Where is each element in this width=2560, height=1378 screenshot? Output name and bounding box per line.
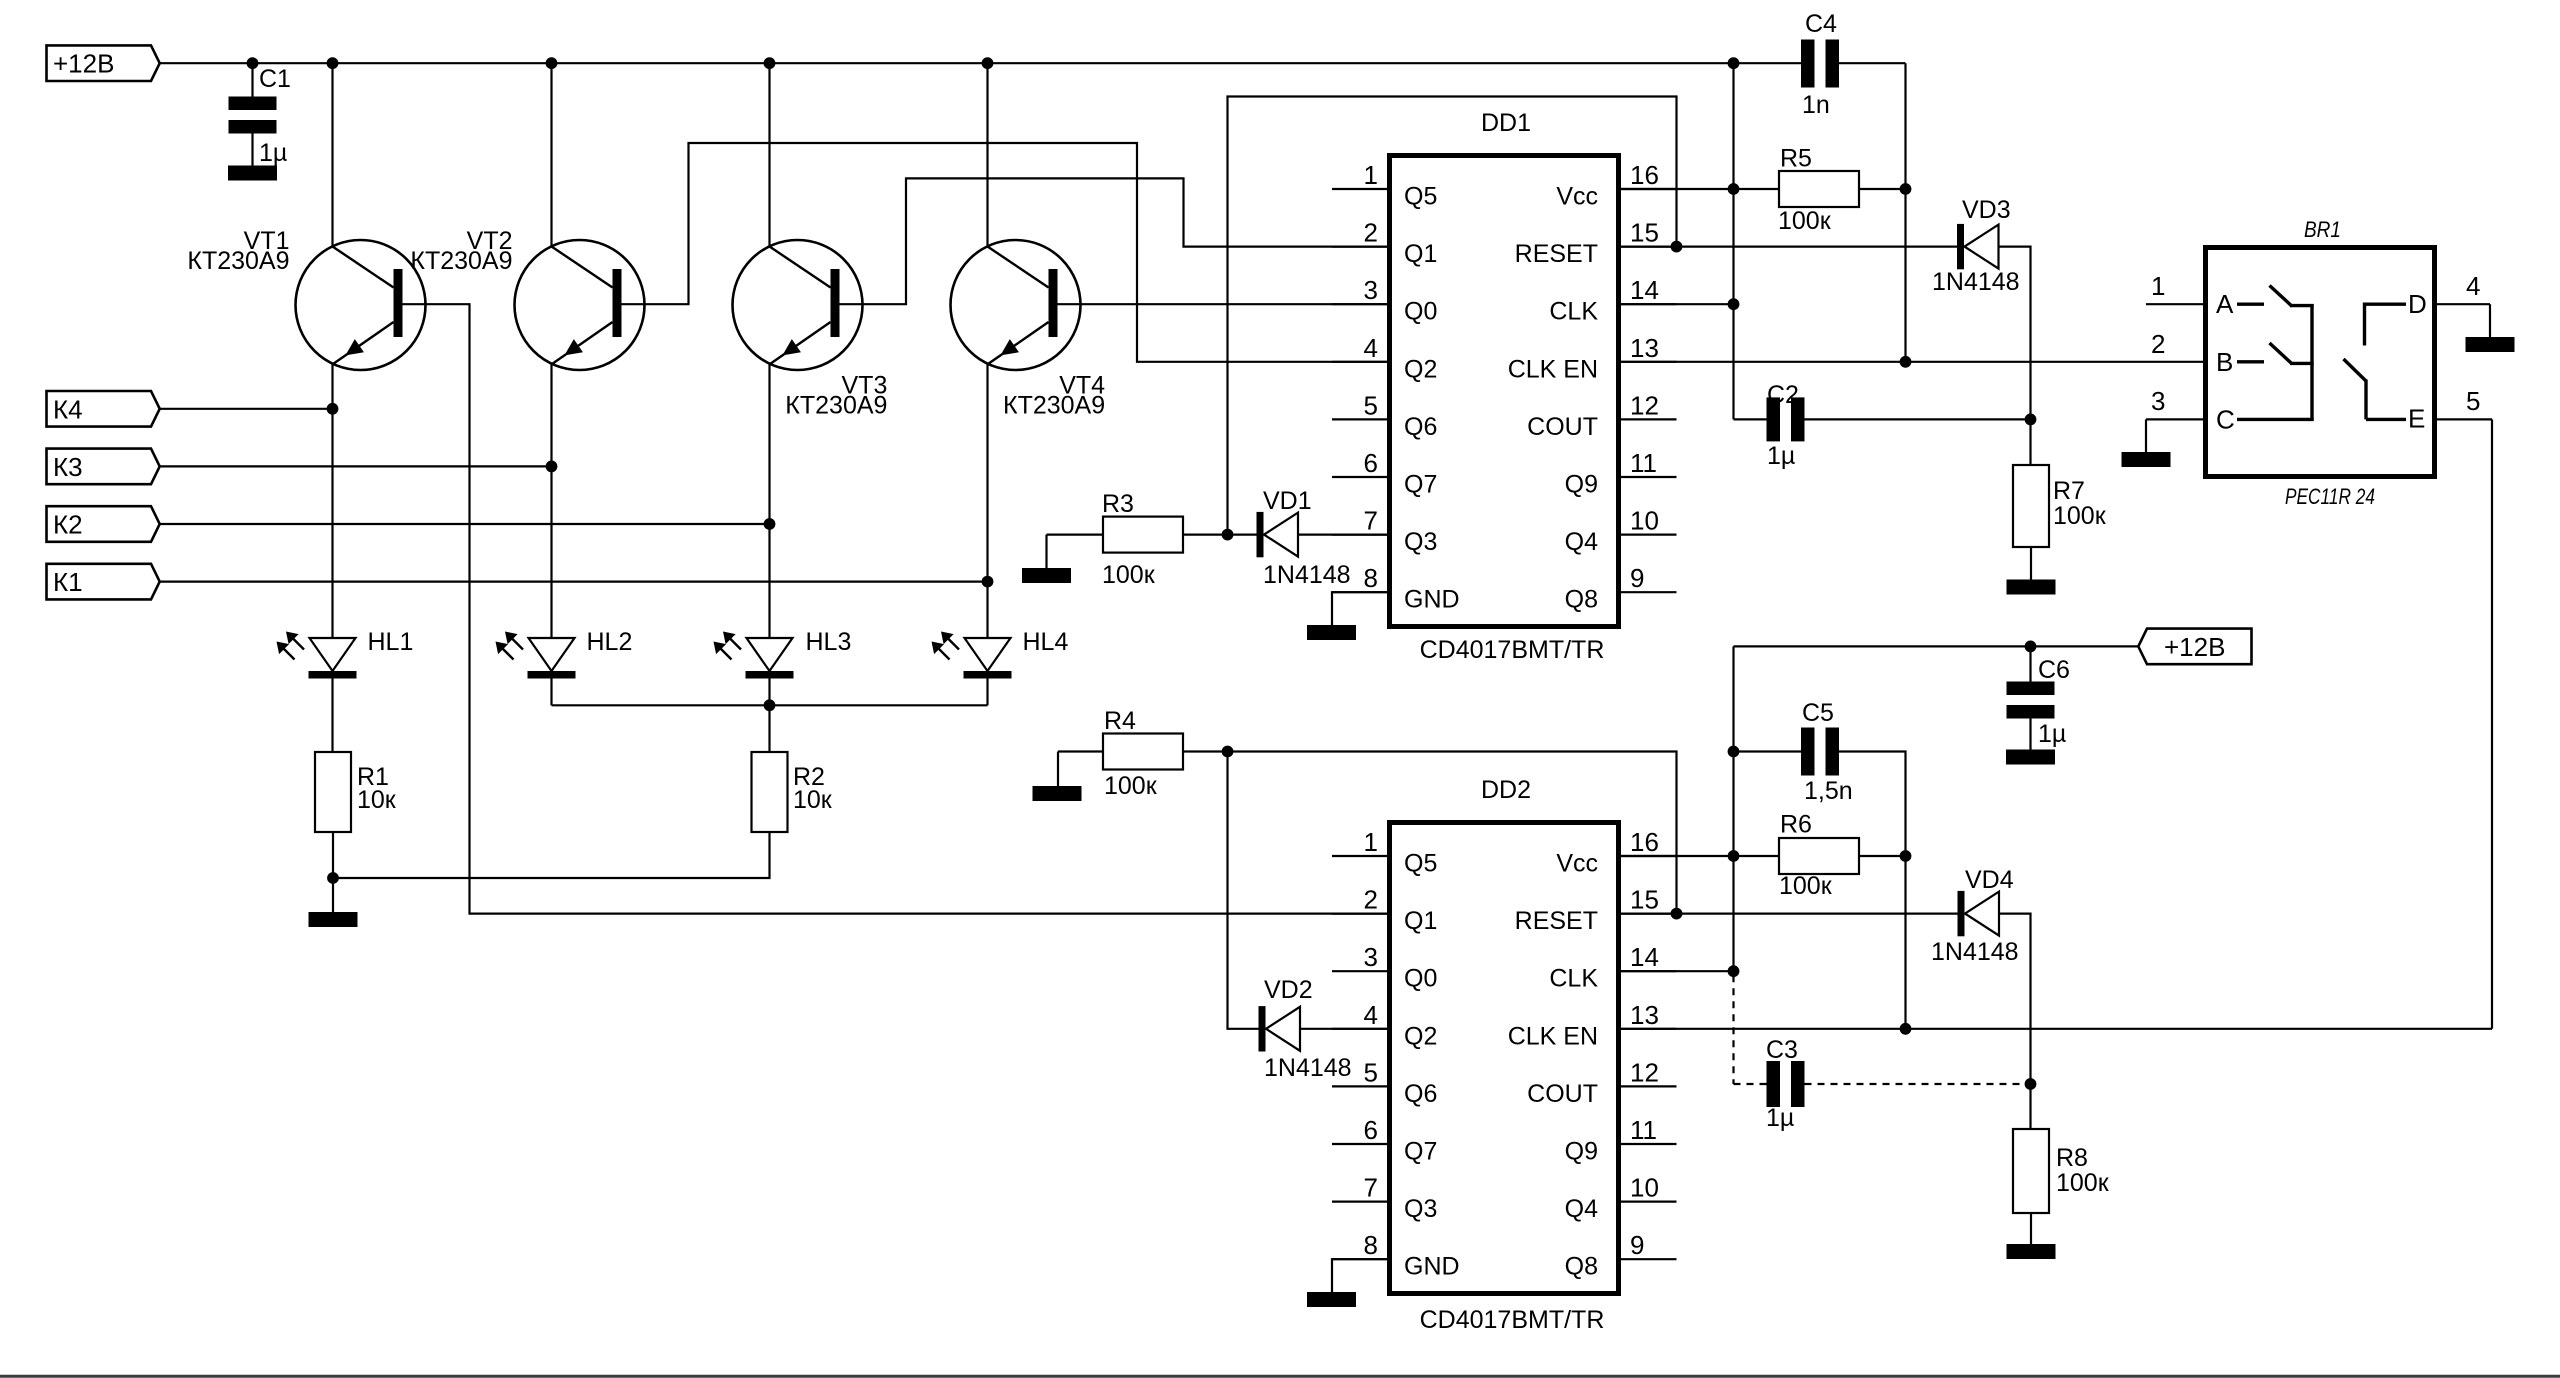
svg-text:Q9: Q9 xyxy=(1565,1138,1598,1166)
svg-text:8: 8 xyxy=(1364,1230,1378,1260)
svg-text:BR1: BR1 xyxy=(2304,217,2341,242)
svg-text:C6: C6 xyxy=(2038,656,2070,684)
svg-text:RESET: RESET xyxy=(1515,907,1598,935)
svg-text:Q6: Q6 xyxy=(1404,413,1437,441)
svg-text:Q8: Q8 xyxy=(1565,1253,1598,1281)
svg-text:HL1: HL1 xyxy=(368,628,414,656)
svg-text:1µ: 1µ xyxy=(1766,1104,1794,1132)
svg-text:14: 14 xyxy=(1630,275,1659,305)
svg-text:Q0: Q0 xyxy=(1404,298,1437,326)
svg-text:Q3: Q3 xyxy=(1404,1195,1437,1223)
svg-text:C2: C2 xyxy=(1767,381,1799,409)
svg-text:5: 5 xyxy=(1364,390,1378,420)
svg-text:RESET: RESET xyxy=(1515,240,1598,268)
svg-text:1,5n: 1,5n xyxy=(1804,777,1853,805)
svg-text:HL2: HL2 xyxy=(587,628,633,656)
svg-text:6: 6 xyxy=(1364,448,1378,478)
svg-text:15: 15 xyxy=(1630,885,1659,915)
svg-text:Q6: Q6 xyxy=(1404,1080,1437,1108)
svg-text:Q1: Q1 xyxy=(1404,240,1437,268)
svg-text:Q2: Q2 xyxy=(1404,1022,1437,1050)
svg-text:Q9: Q9 xyxy=(1565,471,1598,499)
svg-text:5: 5 xyxy=(1364,1057,1378,1087)
svg-text:Q1: Q1 xyxy=(1404,907,1437,935)
svg-text:VD4: VD4 xyxy=(1965,866,2014,894)
svg-text:CLK: CLK xyxy=(1549,965,1598,993)
svg-text:DD1: DD1 xyxy=(1481,109,1531,137)
svg-text:Q2: Q2 xyxy=(1404,355,1437,383)
svg-text:16: 16 xyxy=(1630,827,1659,857)
svg-text:13: 13 xyxy=(1630,1000,1659,1030)
svg-text:Q7: Q7 xyxy=(1404,471,1437,499)
svg-text:Q5: Q5 xyxy=(1404,850,1437,878)
svg-text:1N4148: 1N4148 xyxy=(1264,1054,1352,1082)
svg-text:4: 4 xyxy=(2466,271,2480,301)
svg-text:COUT: COUT xyxy=(1527,413,1598,441)
svg-text:GND: GND xyxy=(1404,1253,1460,1281)
svg-text:+12В: +12В xyxy=(2164,632,2225,662)
svg-text:DD2: DD2 xyxy=(1481,776,1531,804)
svg-text:1µ: 1µ xyxy=(1767,442,1795,470)
svg-text:E: E xyxy=(2408,404,2425,434)
svg-text:7: 7 xyxy=(1364,1173,1378,1203)
svg-text:10к: 10к xyxy=(793,786,833,814)
svg-text:100к: 100к xyxy=(2053,502,2107,530)
svg-text:10к: 10к xyxy=(357,786,397,814)
svg-text:Q4: Q4 xyxy=(1565,1195,1598,1223)
svg-text:CD4017BMT/TR: CD4017BMT/TR xyxy=(1420,1306,1605,1334)
svg-text:15: 15 xyxy=(1630,218,1659,248)
svg-text:4: 4 xyxy=(1364,1000,1378,1030)
svg-text:1µ: 1µ xyxy=(259,139,287,167)
svg-text:100к: 100к xyxy=(1779,872,1833,900)
svg-text:Q7: Q7 xyxy=(1404,1138,1437,1166)
svg-text:Q3: Q3 xyxy=(1404,528,1437,556)
svg-text:9: 9 xyxy=(1630,1230,1644,1260)
svg-text:1N4148: 1N4148 xyxy=(1263,561,1351,589)
svg-text:11: 11 xyxy=(1630,1115,1657,1145)
svg-text:7: 7 xyxy=(1364,506,1378,536)
svg-text:10: 10 xyxy=(1630,1173,1659,1203)
svg-text:Q4: Q4 xyxy=(1565,528,1598,556)
svg-text:1: 1 xyxy=(2151,271,2165,301)
svg-text:R4: R4 xyxy=(1104,707,1136,735)
svg-text:1n: 1n xyxy=(1802,91,1830,119)
svg-text:C1: C1 xyxy=(259,65,291,93)
svg-text:VD1: VD1 xyxy=(1263,487,1312,515)
svg-text:КТ230А9: КТ230А9 xyxy=(1003,392,1105,420)
svg-text:КТ230А9: КТ230А9 xyxy=(785,392,887,420)
svg-text:8: 8 xyxy=(1364,563,1378,593)
svg-text:D: D xyxy=(2408,289,2427,319)
svg-text:A: A xyxy=(2216,289,2234,319)
svg-text:Q5: Q5 xyxy=(1404,183,1437,211)
svg-text:К1: К1 xyxy=(53,567,83,597)
svg-text:CLK EN: CLK EN xyxy=(1508,355,1598,383)
svg-text:CD4017BMT/TR: CD4017BMT/TR xyxy=(1420,636,1605,664)
svg-text:1: 1 xyxy=(1364,827,1378,857)
svg-text:16: 16 xyxy=(1630,160,1659,190)
svg-text:3: 3 xyxy=(2151,386,2165,416)
svg-text:Q0: Q0 xyxy=(1404,965,1437,993)
svg-text:1: 1 xyxy=(1364,160,1378,190)
svg-text:C3: C3 xyxy=(1766,1036,1798,1064)
svg-text:2: 2 xyxy=(2151,329,2165,359)
svg-text:C: C xyxy=(2216,405,2235,435)
svg-text:1µ: 1µ xyxy=(2038,720,2066,748)
svg-text:COUT: COUT xyxy=(1527,1080,1598,1108)
svg-text:2: 2 xyxy=(1364,885,1378,915)
svg-text:R7: R7 xyxy=(2053,477,2085,505)
svg-text:КТ230А9: КТ230А9 xyxy=(187,247,289,275)
svg-text:HL3: HL3 xyxy=(806,628,852,656)
svg-text:1N4148: 1N4148 xyxy=(1932,268,2020,296)
svg-text:14: 14 xyxy=(1630,942,1659,972)
svg-text:9: 9 xyxy=(1630,563,1644,593)
svg-text:Q8: Q8 xyxy=(1565,586,1598,614)
svg-text:+12В: +12В xyxy=(53,49,114,79)
svg-text:GND: GND xyxy=(1404,586,1460,614)
svg-text:1N4148: 1N4148 xyxy=(1931,938,2019,966)
svg-text:100к: 100к xyxy=(2056,1169,2110,1197)
svg-text:Vcc: Vcc xyxy=(1556,850,1598,878)
svg-text:К4: К4 xyxy=(53,394,83,424)
svg-text:100к: 100к xyxy=(1104,772,1158,800)
svg-text:3: 3 xyxy=(1364,942,1378,972)
svg-text:HL4: HL4 xyxy=(1023,628,1069,656)
svg-text:R5: R5 xyxy=(1780,145,1812,173)
svg-text:К3: К3 xyxy=(53,452,83,482)
svg-text:R6: R6 xyxy=(1780,811,1812,839)
svg-text:2: 2 xyxy=(1364,218,1378,248)
svg-text:11: 11 xyxy=(1630,448,1657,478)
svg-text:VD3: VD3 xyxy=(1962,196,2011,224)
svg-text:100к: 100к xyxy=(1778,207,1832,235)
svg-text:B: B xyxy=(2216,347,2233,377)
svg-text:6: 6 xyxy=(1364,1115,1378,1145)
svg-text:13: 13 xyxy=(1630,333,1659,363)
svg-text:VD2: VD2 xyxy=(1264,976,1313,1004)
svg-text:R8: R8 xyxy=(2056,1144,2088,1172)
svg-text:12: 12 xyxy=(1630,1057,1659,1087)
svg-text:100к: 100к xyxy=(1102,561,1156,589)
svg-text:PEC11R 24: PEC11R 24 xyxy=(2285,484,2375,509)
svg-text:C5: C5 xyxy=(1802,699,1834,727)
svg-text:Vcc: Vcc xyxy=(1556,183,1598,211)
svg-text:CLK: CLK xyxy=(1549,298,1598,326)
svg-text:4: 4 xyxy=(1364,333,1378,363)
svg-text:C4: C4 xyxy=(1805,10,1837,38)
svg-text:3: 3 xyxy=(1364,275,1378,305)
svg-text:CLK EN: CLK EN xyxy=(1508,1022,1598,1050)
svg-text:12: 12 xyxy=(1630,390,1659,420)
svg-text:К2: К2 xyxy=(53,510,83,540)
svg-text:10: 10 xyxy=(1630,506,1659,536)
svg-text:5: 5 xyxy=(2466,386,2480,416)
svg-text:R3: R3 xyxy=(1102,490,1134,518)
svg-text:КТ230А9: КТ230А9 xyxy=(410,247,512,275)
